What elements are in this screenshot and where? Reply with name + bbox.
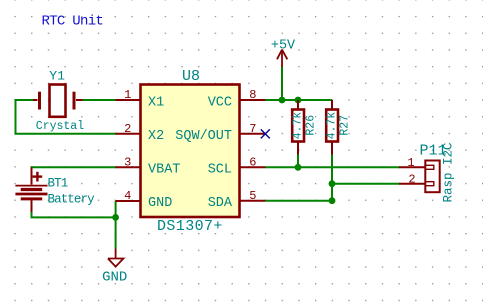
resistor R26 (292, 100, 304, 155)
U8 pin 5 stub (240, 200, 265, 202)
svg-text:Battery: Battery (48, 193, 96, 207)
svg-text:SQW/OUT: SQW/OUT (175, 129, 232, 144)
svg-text:4.7k: 4.7k (326, 112, 339, 140)
wire: SCL (pin 6) to P11 pin 1 (265, 166, 400, 168)
junction: SDA meets R27 vertical (329, 197, 336, 204)
battery plus sign (33, 172, 43, 182)
svg-text:BT1: BT1 (48, 177, 68, 191)
svg-text:6: 6 (249, 156, 256, 170)
wire: R27 tap to P11 pin 2 (332, 183, 400, 185)
svg-text:2: 2 (124, 122, 131, 136)
wire: IC pin 4 down to GND symbol (115, 201, 117, 249)
resistor R27 (326, 100, 338, 155)
wire: battery plus to VBAT (pin 3) (31, 166, 117, 168)
svg-text:DS1307+: DS1307+ (157, 218, 223, 235)
svg-text:5: 5 (249, 189, 256, 203)
no-connect X on pin 7 (261, 129, 270, 138)
P11 pin 2 stub (399, 183, 425, 185)
IC U8 body (141, 85, 240, 218)
svg-text:VBAT: VBAT (148, 163, 180, 178)
U8 pin 8 stub (240, 99, 265, 101)
svg-text:SDA: SDA (208, 196, 233, 211)
ground symbol GND (108, 249, 124, 267)
U8 pin 4 stub (116, 200, 141, 202)
wire: crystal right side to X1 (pin 1) (82, 99, 117, 101)
wire: crystal left side to X2 (pin 2) (16, 100, 117, 134)
junction: R27 tap to P11 pin 2 (329, 180, 336, 187)
svg-text:4: 4 (124, 189, 131, 203)
junction: R26 top on VCC net (295, 97, 302, 104)
wire: SDA (pin 5) to R27 vertical (265, 200, 332, 202)
svg-text:7: 7 (249, 122, 256, 136)
connector P11 body (425, 161, 439, 193)
wire: R27 bottom vertical (331, 150, 333, 201)
wire: VCC (pin 8) to resistor tops (265, 99, 332, 101)
svg-text:Rasp I2C: Rasp I2C (442, 142, 456, 202)
svg-text:4.7k: 4.7k (292, 112, 305, 140)
svg-text:Crystal: Crystal (36, 120, 84, 133)
svg-text:8: 8 (249, 88, 256, 102)
svg-text:GND: GND (148, 196, 172, 211)
svg-text:R26: R26 (304, 115, 317, 136)
U8 pin 2 stub (116, 133, 141, 135)
crystal Y1 (33, 85, 83, 117)
svg-text:X1: X1 (148, 95, 164, 110)
P11 pin 2 socket (425, 182, 434, 186)
wire: +5V symbol down to VCC net (281, 67, 283, 100)
junction: +5V on VCC net (279, 97, 286, 104)
battery BT1 (15, 167, 47, 212)
svg-text:GND: GND (102, 270, 127, 286)
wire: R26 bottom to SCL net (297, 150, 299, 167)
svg-text:X2: X2 (148, 129, 164, 144)
U8 pin 1 stub (116, 99, 141, 101)
junction: R26 bottom on SCL net (295, 164, 302, 171)
P11 pin 1 socket (425, 165, 434, 169)
svg-text:1: 1 (407, 156, 414, 170)
U8 pin 6 stub (240, 166, 265, 168)
svg-text:RTC Unit: RTC Unit (42, 13, 104, 29)
svg-text:U8: U8 (182, 68, 200, 85)
svg-text:R27: R27 (338, 115, 351, 136)
wire: battery minus to GND net (32, 211, 116, 217)
svg-text:SCL: SCL (208, 163, 232, 178)
U8 pin 7 stub (240, 133, 265, 135)
power symbol +5V (277, 50, 287, 67)
junction: battery minus meets GND drop (112, 214, 119, 221)
svg-text:1: 1 (124, 88, 131, 102)
P11 pin 1 stub (399, 166, 425, 168)
svg-text:2: 2 (408, 172, 415, 186)
svg-text:3: 3 (124, 156, 131, 170)
svg-text:VCC: VCC (208, 95, 232, 110)
U8 pin 3 stub (116, 166, 141, 168)
svg-text:Y1: Y1 (49, 69, 65, 84)
svg-text:+5V: +5V (271, 38, 296, 53)
